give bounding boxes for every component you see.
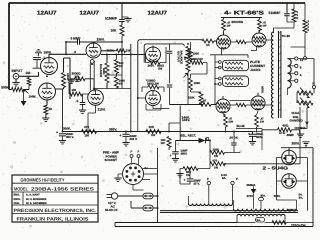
svg-text:5 MMF: 5 MMF <box>71 37 81 41</box>
svg-text:F: F <box>131 150 133 154</box>
capacitor 5MMF <box>66 41 77 43</box>
ground at input jack <box>15 79 17 82</box>
svg-text:2W: 2W <box>158 67 163 71</box>
balance pot wiper <box>184 73 188 77</box>
terminal K <box>312 85 315 88</box>
svg-text:+: + <box>184 178 186 182</box>
wire plate connections to output transformer <box>230 40 273 105</box>
svg-text:40Ω: 40Ω <box>283 124 289 128</box>
svg-text:F: F <box>138 150 140 154</box>
resistor .47 1W screen upper-right <box>258 20 262 31</box>
ground bias network <box>176 174 183 177</box>
svg-text:48MF: 48MF <box>287 133 295 137</box>
ground under .1 cap <box>79 110 86 113</box>
fuse lower <box>143 205 153 211</box>
AC plug 117V <box>111 193 117 199</box>
wire rectifier connections <box>277 158 308 211</box>
svg-text:220Ω=2W: 220Ω=2W <box>291 224 306 228</box>
resistor 470 1W bias <box>210 162 225 166</box>
speaker tap terminals 16-8-4 <box>295 57 298 60</box>
triode V2B <box>88 90 104 106</box>
svg-text:50-60 CY.: 50-60 CY. <box>105 208 118 212</box>
parasitic stopper lower <box>236 103 246 106</box>
svg-text:12AU7: 12AU7 <box>148 11 168 17</box>
svg-text:GANGED: GANGED <box>290 119 304 123</box>
socket stub wires <box>133 169 158 191</box>
triode V3A <box>146 47 161 62</box>
resistor .47 1W cathode lower-right <box>255 115 259 127</box>
wire V3 loop <box>138 98 161 132</box>
svg-text:470: 470 <box>213 158 218 162</box>
resistor 56K 1W <box>183 167 198 171</box>
svg-text:TO-80: TO-80 <box>282 34 291 38</box>
triode V2A <box>86 43 101 58</box>
svg-text:BLUE: BLUE <box>237 124 245 128</box>
resistor 22K <box>292 9 296 22</box>
resistor 1K grid lower KT66 <box>199 103 211 107</box>
svg-text:F: F <box>207 177 209 181</box>
svg-text:INPUT: INPUT <box>12 69 24 73</box>
svg-text:51MMF: 51MMF <box>269 11 282 15</box>
wire primary circuit <box>237 216 313 222</box>
wire V2A plate to V3A grid <box>101 54 146 56</box>
title block frame <box>12 175 98 222</box>
resistor 1W grid V2B <box>69 92 82 96</box>
svg-text:230BA-1956 SERIES: 230BA-1956 SERIES <box>31 186 94 191</box>
wire left rail <box>8 3 10 90</box>
ground under 20MF 500V <box>122 143 129 146</box>
svg-text:GROMMES HI-FIDELITY: GROMMES HI-FIDELITY <box>21 177 65 182</box>
svg-text:1W: 1W <box>72 88 77 92</box>
svg-text:/1W: /1W <box>229 121 234 124</box>
wire plate column to bus <box>62 89 64 132</box>
ground below pot <box>23 90 25 102</box>
primary winding <box>237 214 285 216</box>
ground under 20MF <box>249 142 256 145</box>
capacitor at 3900 ground <box>75 80 79 82</box>
resistor 240 ohm 2W cathode V3B <box>148 85 159 89</box>
svg-text:F: F <box>236 177 238 181</box>
svg-text:SEL. RECT.: SEL. RECT. <box>181 133 197 137</box>
svg-text:245V.: 245V. <box>148 64 155 68</box>
svg-text:1M: 1M <box>26 71 31 75</box>
svg-text:5A.: 5A. <box>257 219 261 222</box>
wire BLUE lead <box>236 129 262 151</box>
svg-text:6A.: 6A. <box>222 176 227 180</box>
svg-text:MODEL: MODEL <box>14 186 28 191</box>
wire bottom grid line <box>170 104 204 106</box>
svg-text:1W: 1W <box>161 141 166 145</box>
capacitor 51MMF (feedback) <box>286 3 288 13</box>
triode V3B <box>146 91 161 106</box>
svg-text:.6: .6 <box>74 50 77 54</box>
power transformer core <box>160 211 298 213</box>
resistor 220K <box>199 92 203 103</box>
svg-text:.1: .1 <box>76 99 79 103</box>
svg-text:1W: 1W <box>227 25 231 28</box>
speaker jack plug lower <box>223 76 249 86</box>
svg-text:2W: 2W <box>75 74 80 78</box>
svg-text:470: 470 <box>84 125 89 129</box>
resistor 470 1W <box>82 130 97 134</box>
svg-text:K: K <box>297 17 299 20</box>
rectifier V8 5U4G upper <box>282 150 297 165</box>
resistor 3900 ohm 2W <box>75 77 86 81</box>
KT66 V4 upper left <box>217 35 231 49</box>
svg-text:375V.: 375V. <box>274 194 281 198</box>
ground under 10MF <box>172 159 179 162</box>
fuse upper <box>143 193 153 199</box>
svg-text:560MA: 560MA <box>247 183 256 187</box>
cathode cap at V1A with inverted ground <box>35 49 42 52</box>
pre-amp power socket octal <box>123 164 144 185</box>
resistor 1K grid upper KT66 <box>202 39 214 43</box>
ground at 51MMF <box>122 17 128 18</box>
output transformer T1 primary <box>271 32 273 118</box>
resistor 100K lower <box>189 78 193 90</box>
svg-text:1W: 1W <box>151 133 156 137</box>
svg-text:DWG.: DWG. <box>14 198 21 201</box>
svg-text:BROWN: BROWN <box>232 20 244 24</box>
resistor 390K 1W <box>117 49 126 53</box>
svg-text:FRANKLIN PARK, ILLINOIS: FRANKLIN PARK, ILLINOIS <box>17 217 89 222</box>
input jack J1 <box>13 74 19 80</box>
KT66 V6 lower left <box>216 99 230 113</box>
svg-text:3A.: 3A. <box>299 196 304 200</box>
svg-text:W. S. GROMMES: W. S. GROMMES <box>26 202 47 205</box>
balance pot wiper loop <box>90 60 94 91</box>
wire B+ filter bus <box>63 131 198 133</box>
svg-text:10K: 10K <box>149 125 155 129</box>
svg-text:2 - 5U4G: 2 - 5U4G <box>263 165 289 170</box>
resistor 390 ohm 2W cathode V3A <box>149 61 160 65</box>
ground below V1B <box>45 115 47 118</box>
wire pot column junctions <box>94 36 131 89</box>
svg-text:450V.: 450V. <box>181 153 188 156</box>
svg-text:10K: 10K <box>111 29 118 33</box>
speaker jack plug upper <box>223 60 249 70</box>
plug terminals <box>218 61 221 64</box>
resistor 10K <box>121 22 123 26</box>
wire V2B plate down to bus <box>88 105 96 131</box>
svg-text:51MMF: 51MMF <box>105 17 118 21</box>
svg-text:12AU7: 12AU7 <box>80 11 100 17</box>
svg-text:4- KT-66'S: 4- KT-66'S <box>224 11 265 17</box>
coupling cap lower in chain <box>167 85 173 87</box>
resistor 10K 1W <box>146 130 161 134</box>
svg-text:SP-73: SP-73 <box>288 208 297 212</box>
svg-text:500Ω: 500Ω <box>102 68 105 74</box>
wire KT66 cathode returns <box>210 47 257 59</box>
ground at socket <box>118 174 123 178</box>
svg-text:1W: 1W <box>126 49 131 53</box>
svg-text:375V.: 375V. <box>247 194 254 198</box>
svg-text:12AU7: 12AU7 <box>37 11 57 17</box>
wire jack feeds <box>215 55 218 104</box>
svg-text:365V.: 365V. <box>109 128 117 132</box>
balance pot 500 ohm <box>105 63 109 83</box>
svg-text:1W: 1W <box>85 134 90 138</box>
svg-text:25 V.: 25 V. <box>194 182 200 186</box>
wire AC to fuses <box>115 148 158 227</box>
svg-text:236V.: 236V. <box>97 38 105 42</box>
filament winding 6.3V <box>209 185 233 198</box>
resistor 3300 <box>303 20 307 33</box>
wire loop around V3A inner to balance pot <box>144 44 184 63</box>
wire V2 cathode chain <box>95 89 97 92</box>
wire V3B plate to chain <box>153 106 170 109</box>
svg-text:100K: 100K <box>193 52 200 56</box>
svg-text:+: + <box>170 154 172 158</box>
wire V3A plate lead <box>152 46 154 48</box>
output transformer secondary <box>288 59 292 89</box>
coupling cap upper in chain <box>169 44 171 50</box>
capacitor .1 to ground at V2B <box>80 103 86 105</box>
svg-text:1W: 1W <box>263 25 267 28</box>
plate load resistor 100K vertical (V1B) <box>56 58 64 89</box>
wire AC to primary run <box>158 222 238 224</box>
hum balance dual pot <box>297 91 313 95</box>
svg-text:300K.: 300K. <box>63 127 71 131</box>
wire rectifier output B+ <box>281 148 313 227</box>
svg-text:100K: 100K <box>194 81 201 85</box>
wire B+ center tap <box>274 28 295 33</box>
svg-text:SOCKET: SOCKET <box>105 158 118 162</box>
svg-text:56K/1W: 56K/1W <box>193 57 203 61</box>
svg-text:BALANCE: BALANCE <box>99 64 102 77</box>
svg-text:215V.: 215V. <box>98 108 106 112</box>
ground under 20MF 350V <box>59 141 66 144</box>
svg-text:1W: 1W <box>214 165 219 169</box>
svg-text:+: + <box>120 134 122 138</box>
wire input to grid <box>19 72 39 76</box>
heater supply line BROWN <box>221 17 262 19</box>
wire loop around V3A outer to KT66 grid <box>138 40 202 98</box>
parasitic stopper upper <box>236 40 246 43</box>
resistor 100K 1W plate V2B <box>114 77 118 89</box>
resistor 82K 1W <box>114 60 118 74</box>
wire feedback 16 ohm tap to pot <box>298 59 314 94</box>
rectifier V9 5U4G lower <box>282 174 297 189</box>
resistor 2K cathode V1B <box>46 100 47 106</box>
svg-text:240Ω.2W: 240Ω.2W <box>147 82 159 86</box>
ground under 3900 left <box>72 79 75 80</box>
KT66 V5 upper right <box>252 33 266 47</box>
fuse 5A primary <box>256 217 265 222</box>
svg-text:220K: 220K <box>188 96 195 100</box>
output transformer core <box>279 31 281 118</box>
svg-text:A. A. HART: A. A. HART <box>26 194 40 197</box>
resistor 100K upper <box>189 50 193 60</box>
svg-text:350 V.: 350 V. <box>66 135 74 139</box>
svg-text:JACKS: JACKS <box>250 68 261 72</box>
wire bottom AC run <box>115 226 313 228</box>
wire V1A plate to V2A grid <box>49 42 86 58</box>
resistor 56K/1W <box>191 61 203 65</box>
ground at 48MF <box>299 132 301 134</box>
svg-text:+: + <box>56 131 58 135</box>
resistor 100K 1W bias <box>210 151 224 155</box>
KT66 V7 lower right <box>251 96 265 110</box>
svg-text:144V.: 144V. <box>182 118 190 122</box>
triode V1B <box>39 83 56 100</box>
svg-text:350V.: 350V. <box>292 142 300 146</box>
svg-text:1W: 1W <box>119 65 123 68</box>
HV winding <box>234 209 297 211</box>
svg-text:400V.: 400V. <box>261 86 265 93</box>
triode V1A <box>41 58 58 75</box>
svg-text:W. H. MOEHNKE: W. H. MOEHNKE <box>26 198 47 201</box>
wire B+ top rail <box>9 2 305 4</box>
wire bias feed vertical <box>179 106 181 141</box>
svg-text:500K: 500K <box>1 85 9 89</box>
pot wiper arrow <box>24 90 28 94</box>
wire screen/coupling line x70 <box>64 58 71 99</box>
svg-text:500 V.: 500 V. <box>130 137 138 141</box>
fuse 560MA arrow <box>253 187 255 190</box>
svg-text:ENG.: ENG. <box>14 194 21 197</box>
svg-text:1/4W.: 1/4W. <box>29 94 37 98</box>
resistor 10K 1W second <box>167 137 171 148</box>
wire feedback from pot <box>296 93 298 103</box>
resistor .47 1W screen upper-left <box>222 20 226 31</box>
svg-text:1W: 1W <box>260 121 264 124</box>
resistor .47 1W cathode lower-left <box>224 115 228 127</box>
capacitor 51MMF to ground <box>121 3 123 19</box>
wire feedback vertical x131 <box>130 44 132 132</box>
wire pot wiper junction down <box>300 108 308 129</box>
svg-text:PRECISION ELECTRONICS, INC.: PRECISION ELECTRONICS, INC. <box>14 208 97 213</box>
svg-text:100K: 100K <box>213 148 220 152</box>
svg-text:CHD.: CHD. <box>14 202 21 205</box>
svg-text:1W: 1W <box>119 83 123 86</box>
